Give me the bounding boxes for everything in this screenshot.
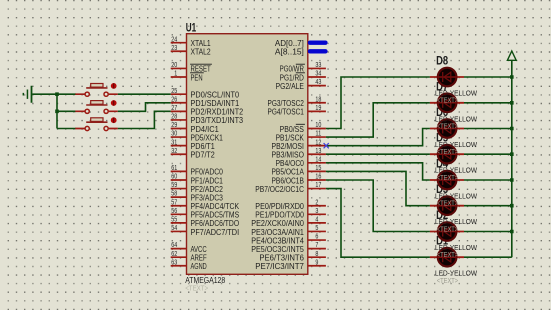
svg-text:25: 25 xyxy=(171,88,177,95)
svg-text:3: 3 xyxy=(315,208,318,215)
svg-text:20: 20 xyxy=(171,62,177,69)
svg-text:1: 1 xyxy=(174,71,177,78)
svg-text:30: 30 xyxy=(171,131,177,138)
svg-text:29: 29 xyxy=(171,122,177,129)
svg-text:26: 26 xyxy=(171,96,177,103)
svg-text:12: 12 xyxy=(315,139,321,146)
svg-text:62: 62 xyxy=(171,251,177,258)
svg-text:31: 31 xyxy=(171,139,177,146)
svg-text:5: 5 xyxy=(315,225,318,232)
svg-text:<TEXT>: <TEXT> xyxy=(437,199,459,208)
svg-text:19: 19 xyxy=(315,105,321,112)
svg-text:18: 18 xyxy=(315,96,321,103)
svg-text:60: 60 xyxy=(171,174,177,181)
svg-text:4: 4 xyxy=(315,217,318,224)
svg-text:63: 63 xyxy=(171,259,177,266)
svg-text:23: 23 xyxy=(171,45,177,52)
svg-text:XTAL2: XTAL2 xyxy=(191,47,211,57)
svg-text:<TEXT>: <TEXT> xyxy=(437,173,459,182)
svg-text:33: 33 xyxy=(315,62,321,69)
svg-text:32: 32 xyxy=(171,148,177,155)
svg-text:<TEXT>: <TEXT> xyxy=(185,283,209,292)
svg-text:<TEXT>: <TEXT> xyxy=(437,96,459,105)
svg-text:55: 55 xyxy=(171,217,177,224)
svg-text:58: 58 xyxy=(171,191,177,198)
svg-text:15: 15 xyxy=(315,165,321,172)
svg-text:57: 57 xyxy=(171,199,177,206)
svg-text:61: 61 xyxy=(171,165,177,172)
svg-text:A[8..15]: A[8..15] xyxy=(275,47,304,57)
svg-text:56: 56 xyxy=(171,208,177,215)
svg-text:11: 11 xyxy=(315,131,321,138)
svg-text:54: 54 xyxy=(171,225,177,232)
svg-text:PE7/IC3/INT7: PE7/IC3/INT7 xyxy=(255,261,304,271)
svg-text:<TEXT>: <TEXT> xyxy=(437,147,459,156)
svg-text:PG2/ALE: PG2/ALE xyxy=(276,81,305,91)
svg-text:34: 34 xyxy=(315,71,321,78)
svg-text:17: 17 xyxy=(315,182,321,189)
svg-text:14: 14 xyxy=(315,156,321,163)
svg-text:16: 16 xyxy=(315,174,321,181)
svg-text:<TEXT>: <TEXT> xyxy=(437,250,459,259)
svg-text:PEN: PEN xyxy=(191,72,203,82)
svg-text:2: 2 xyxy=(315,199,318,206)
svg-text:8: 8 xyxy=(315,251,318,258)
svg-text:<TEXT>: <TEXT> xyxy=(437,121,459,130)
svg-text:7: 7 xyxy=(315,242,318,249)
svg-text:PF7/ADC7/TDI: PF7/ADC7/TDI xyxy=(191,227,240,237)
svg-text:6: 6 xyxy=(315,234,318,241)
svg-text:PG4/TOSC1: PG4/TOSC1 xyxy=(268,107,305,117)
svg-text:24: 24 xyxy=(171,36,177,43)
svg-text:27: 27 xyxy=(171,105,177,112)
svg-text:28: 28 xyxy=(171,114,177,121)
svg-text:10: 10 xyxy=(315,122,321,129)
svg-text:<TEXT>: <TEXT> xyxy=(437,224,459,233)
svg-text:<TEXT>: <TEXT> xyxy=(437,276,459,285)
svg-text:AGND: AGND xyxy=(191,261,207,271)
svg-text:13: 13 xyxy=(315,148,321,155)
svg-text:D8: D8 xyxy=(436,56,448,68)
svg-text:59: 59 xyxy=(171,182,177,189)
svg-text:PB7/OC2/OC1C: PB7/OC2/OC1C xyxy=(255,184,304,194)
svg-text:43: 43 xyxy=(315,79,321,86)
svg-text:PD7/T2: PD7/T2 xyxy=(191,150,215,160)
svg-text:64: 64 xyxy=(171,242,177,249)
svg-text:9: 9 xyxy=(315,259,318,266)
svg-text:U1: U1 xyxy=(186,23,197,35)
